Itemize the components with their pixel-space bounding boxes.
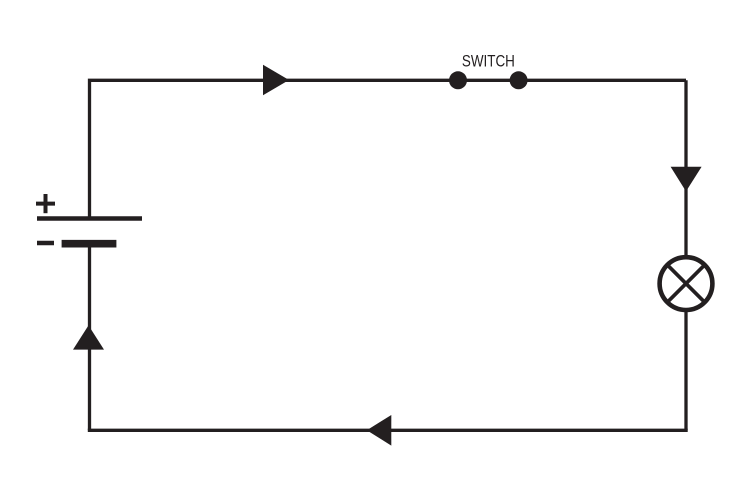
minus terminal label [37, 241, 54, 245]
wire left (bottom-left corner up to battery - plate) [88, 242, 91, 430]
current arrow (top, pointing right) [263, 65, 289, 96]
switch contact dot (right) [510, 71, 528, 89]
lamp L1 (circle with X) [660, 257, 713, 310]
current arrow (left side, pointing up) [73, 325, 104, 349]
current arrow (right side, pointing down) [671, 167, 702, 192]
wire bottom (bottom-right corner to bottom-left corner) [88, 429, 688, 432]
svg-text:SWITCH: SWITCH [462, 53, 515, 71]
plus terminal label [36, 194, 55, 213]
battery B1: positive plate (long) [37, 216, 142, 221]
battery B1: negative plate (short thick) [62, 240, 117, 248]
wire right (top-right corner down through lamp to bottom-right corner) [684, 80, 687, 430]
switch contact dot (left) [449, 71, 467, 89]
current arrow (bottom, pointing left) [367, 415, 392, 446]
wire top (battery + to switch to top-right corner) [90, 80, 687, 220]
